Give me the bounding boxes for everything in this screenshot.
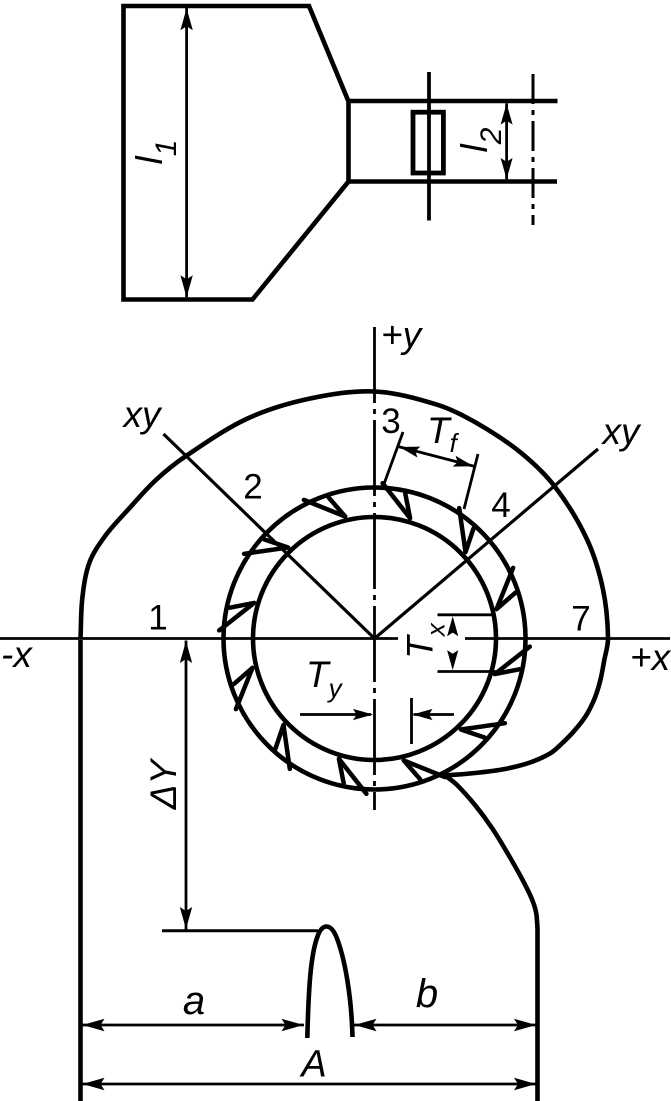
dimension l2 <box>505 103 508 179</box>
impeller blade 4 <box>495 647 530 675</box>
dimension b <box>354 1024 537 1027</box>
dimension Tf <box>384 432 403 484</box>
svg-text:2: 2 <box>243 468 262 507</box>
duct centerline (dash-dot vertical) <box>532 74 535 225</box>
svg-text:3: 3 <box>381 402 400 441</box>
damper rectangle <box>413 112 443 173</box>
impeller blade 12 <box>304 498 345 517</box>
impeller blade 2 <box>459 508 473 552</box>
diagonal line xy (upper right) <box>375 449 599 639</box>
svg-text:1: 1 <box>148 599 167 638</box>
svg-text:A: A <box>299 1044 326 1086</box>
svg-text:b: b <box>416 972 438 1016</box>
dimension l1 <box>185 8 188 297</box>
tongue tip extension line <box>162 929 318 932</box>
dimension DeltaY <box>185 641 188 930</box>
impeller blade 5 <box>461 723 505 737</box>
dimension a <box>82 1024 305 1027</box>
svg-text:7: 7 <box>571 600 590 639</box>
dimension Tx <box>438 613 496 616</box>
impeller blade 3 <box>497 568 516 609</box>
vertical centerline (dash-dot) <box>373 327 376 810</box>
impeller blade 1 <box>383 483 411 518</box>
svg-text:xy: xy <box>601 411 643 452</box>
svg-text:xy: xy <box>122 394 164 435</box>
impeller blade 6 <box>404 761 445 780</box>
damper axis line (solid vertical) <box>427 72 431 221</box>
svg-text:-x: -x <box>1 634 33 675</box>
x axis line (left part) <box>0 637 398 640</box>
left casing wall <box>78 640 83 1101</box>
impeller blade 7 <box>339 759 367 794</box>
volute tongue arch <box>307 927 352 1039</box>
svg-text:4: 4 <box>491 486 510 525</box>
inlet duct bottom line <box>347 179 558 184</box>
dimension A <box>82 1083 537 1086</box>
impeller blade 10 <box>219 603 254 631</box>
dimension Ty <box>300 713 371 716</box>
volute spiral casing <box>81 391 609 775</box>
outlet right wall <box>445 776 538 1101</box>
inlet duct top line <box>347 99 558 104</box>
svg-text:+y: +y <box>381 315 424 356</box>
impeller inner circle <box>253 517 496 760</box>
impeller outer circle <box>224 488 526 790</box>
inlet funnel outline <box>124 6 349 300</box>
impeller blade 9 <box>234 668 253 709</box>
svg-text:+x: +x <box>630 637 671 678</box>
impeller blade 8 <box>276 725 290 769</box>
svg-text:ΔY: ΔY <box>143 757 184 810</box>
svg-text:a: a <box>183 979 205 1023</box>
impeller blade 11 <box>244 540 288 554</box>
diagonal line xy (upper left) <box>164 434 375 639</box>
x axis line (right part) <box>465 637 670 640</box>
